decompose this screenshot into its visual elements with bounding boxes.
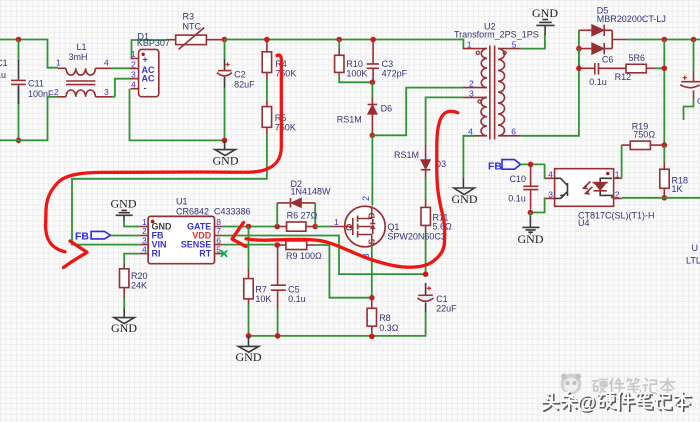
svg-text:1: 1 xyxy=(615,169,620,179)
node R18 bottom junction xyxy=(662,195,668,201)
diode D2 1N4148W xyxy=(277,179,331,208)
watermark faint text 硬件笔记本 xyxy=(592,378,674,394)
inductor L1 common-mode choke xyxy=(54,42,112,97)
svg-text:R20: R20 xyxy=(131,271,148,281)
svg-text:MBR20200CT-LJ: MBR20200CT-LJ xyxy=(597,14,666,24)
svg-text:4: 4 xyxy=(131,80,136,90)
svg-text:GND: GND xyxy=(518,232,544,246)
wire top bus left xyxy=(0,40,58,68)
capacitor C10 0.1u xyxy=(508,164,538,209)
node R8 bottom junction xyxy=(369,334,375,340)
resistor R9 100ohm xyxy=(277,241,322,261)
text cut component left edge xyxy=(0,58,8,80)
node R4 top junction xyxy=(264,37,270,43)
svg-text:0.1u: 0.1u xyxy=(589,77,607,87)
node C3 top junction xyxy=(370,37,376,43)
wire xfmr pin6 to D5 anode column xyxy=(521,30,579,136)
svg-text:4: 4 xyxy=(468,126,473,136)
svg-text:RS1M: RS1M xyxy=(394,150,419,160)
watermark faint logo panda xyxy=(561,374,582,395)
wire R6 to Q1 gate xyxy=(315,226,331,228)
svg-text:4: 4 xyxy=(548,169,553,179)
no-connect X on RT pin xyxy=(221,250,227,256)
svg-text:Q1: Q1 xyxy=(387,222,399,232)
wire Q1 source down xyxy=(371,247,373,298)
svg-text:-: - xyxy=(144,83,147,93)
wire R20 bottom xyxy=(123,297,125,308)
svg-text:2: 2 xyxy=(361,196,371,201)
svg-text:C10: C10 xyxy=(510,174,527,184)
svg-text:GND: GND xyxy=(213,153,239,167)
svg-text:LTL: LTL xyxy=(686,256,700,266)
svg-text:3: 3 xyxy=(104,87,109,97)
node C10 bottom junction xyxy=(528,210,534,216)
svg-text:GND: GND xyxy=(236,350,262,364)
ground GND triangle under R20 xyxy=(111,308,137,335)
svg-text:5: 5 xyxy=(216,244,221,254)
power GND earth under opto xyxy=(518,213,544,247)
node C10 top junction xyxy=(528,162,534,168)
svg-text:GND: GND xyxy=(111,197,137,211)
node GATE D2 left junction xyxy=(274,224,280,230)
node GATE R7 junction xyxy=(246,224,252,230)
svg-text:G: G xyxy=(346,223,353,233)
wire C11 branch bottom xyxy=(18,87,20,141)
svg-text:4: 4 xyxy=(142,244,147,254)
node D6 top junction xyxy=(370,80,376,86)
svg-text:GND: GND xyxy=(111,321,137,335)
svg-text:R9 100Ω: R9 100Ω xyxy=(286,251,322,261)
wire C11 branch top xyxy=(18,40,20,62)
svg-text:R3: R3 xyxy=(183,12,195,22)
text cut component right edge xyxy=(686,243,700,266)
watermark emboss top 头条@硬件笔记本 xyxy=(542,392,690,414)
wire bottom ground row xyxy=(249,312,426,336)
svg-text:C5: C5 xyxy=(288,285,300,295)
resistor R18 1K xyxy=(660,145,688,198)
wire D6 top lead xyxy=(371,82,373,98)
wire xfmr pin5 to earth xyxy=(521,34,545,49)
wire U1 pin4 to R20 xyxy=(124,254,140,265)
svg-text:C1: C1 xyxy=(436,294,448,304)
svg-text:3: 3 xyxy=(548,189,553,199)
wire R12 to bus branch xyxy=(655,40,665,146)
svg-text:R12: R12 xyxy=(615,72,632,82)
wire xfmr pin2 to drain node xyxy=(372,88,462,136)
capacitor C2 82uF xyxy=(217,59,255,90)
svg-text:NTC: NTC xyxy=(183,22,202,32)
svg-text:U1: U1 xyxy=(176,197,188,207)
transformer U2 xyxy=(454,22,539,140)
svg-text:2: 2 xyxy=(615,189,620,199)
svg-text:C6: C6 xyxy=(602,55,614,65)
svg-text:750K: 750K xyxy=(275,123,296,133)
svg-text:750K: 750K xyxy=(275,69,296,79)
svg-text:472pF: 472pF xyxy=(382,69,408,79)
wire R4 to R5 xyxy=(266,79,268,101)
node source sense junction xyxy=(369,295,375,301)
resistor R8 0.3ohm xyxy=(367,298,399,333)
wire D2 left riser xyxy=(276,203,278,227)
svg-text:C2: C2 xyxy=(234,70,246,80)
net label FB left xyxy=(75,230,111,242)
svg-text:2: 2 xyxy=(131,60,136,70)
node D6 bottom junction xyxy=(370,133,376,139)
diode D5 MBR20200CT-LJ dual xyxy=(579,6,666,55)
node junction bottom-left xyxy=(16,138,22,144)
svg-text:R10: R10 xyxy=(346,59,363,69)
svg-text:3: 3 xyxy=(469,89,474,99)
svg-text:1K: 1K xyxy=(672,184,683,194)
svg-text:S: S xyxy=(367,239,377,245)
svg-text:100K: 100K xyxy=(346,69,367,79)
wire FB to U1 pin2 xyxy=(111,235,140,237)
svg-text:10K: 10K xyxy=(255,294,271,304)
svg-text:2: 2 xyxy=(469,79,474,89)
wire R10 bottom to C3 bottom xyxy=(339,75,372,83)
capacitor C5 0.1u xyxy=(271,245,306,336)
svg-text:82uF: 82uF xyxy=(234,80,255,90)
svg-text:C1: C1 xyxy=(0,58,8,68)
capacitor C1 22uF xyxy=(418,283,458,314)
wire D2 right riser xyxy=(314,203,316,227)
wire opto pin2 row xyxy=(622,197,700,199)
resistor R11 5.6ohm xyxy=(421,200,452,234)
power GND earth above U1 pin1 xyxy=(111,197,137,222)
svg-text:GND: GND xyxy=(452,192,478,206)
wire FB to opto pin4 xyxy=(521,164,547,178)
ground GND triangle bottom xyxy=(236,336,262,364)
svg-text:0.3Ω: 0.3Ω xyxy=(379,323,399,333)
svg-text:1: 1 xyxy=(334,217,339,227)
svg-text:D: D xyxy=(367,213,377,219)
wire C2 branch xyxy=(224,40,226,141)
wire R11 bottom xyxy=(425,233,427,274)
node R19 right junction xyxy=(662,142,668,148)
capacitor C6 0.1u xyxy=(579,55,626,88)
node C6 left junction xyxy=(576,66,582,72)
svg-text:U4: U4 xyxy=(578,218,590,228)
svg-text:4: 4 xyxy=(104,58,109,68)
resistor R7 10K xyxy=(244,269,272,305)
wire bottom bus left xyxy=(0,97,58,141)
annotation red stroke right xyxy=(232,111,458,267)
bridge rectifier D1 KBP307 xyxy=(131,32,170,97)
node VDD C1 junction xyxy=(423,271,429,277)
node bottom GND junction xyxy=(246,333,252,339)
diode D6 RS1M xyxy=(337,98,392,135)
annotation red stroke left xyxy=(46,55,282,267)
svg-text:1N4148W: 1N4148W xyxy=(291,187,332,197)
svg-text:D6: D6 xyxy=(381,104,393,114)
svg-text:CR6842_C433386: CR6842_C433386 xyxy=(176,207,251,217)
svg-text:R8: R8 xyxy=(379,313,391,323)
resistor R10 100K xyxy=(335,40,368,79)
svg-text:5: 5 xyxy=(512,40,517,50)
ground GND triangle under D1 xyxy=(213,140,239,167)
node R3 right junction xyxy=(222,37,228,43)
svg-text:2: 2 xyxy=(54,87,59,97)
resistor R5 750K xyxy=(262,101,296,135)
resistor R12 5R6 xyxy=(615,53,655,82)
svg-text:1: 1 xyxy=(131,49,136,59)
svg-text:RT: RT xyxy=(199,249,211,259)
svg-text:0.1u: 0.1u xyxy=(288,294,306,304)
wire R8 bottom xyxy=(371,332,373,337)
wire D3 to R11 xyxy=(425,177,427,200)
svg-text:1: 1 xyxy=(56,58,61,68)
wire R7 top branch xyxy=(248,227,250,270)
resistor R6 27ohm xyxy=(277,211,317,232)
wire top bus right xyxy=(225,40,464,49)
wire R9 to Q1 source node xyxy=(316,245,372,298)
capacitor C11 xyxy=(11,60,54,104)
svg-text:6: 6 xyxy=(511,126,516,136)
svg-text:Transform_2PS_1PS: Transform_2PS_1PS xyxy=(454,30,539,40)
wire xfmr pin3 to D3 xyxy=(426,97,463,146)
svg-text:C3: C3 xyxy=(382,59,394,69)
node R6 right junction xyxy=(312,224,318,230)
node D5 anodes junction xyxy=(576,46,582,52)
wire xfmr pin4 to ground xyxy=(463,136,475,179)
svg-text:L1: L1 xyxy=(77,42,87,52)
wire output bus xyxy=(627,39,700,41)
resistor R3 NTC xyxy=(167,12,224,50)
svg-text:+: + xyxy=(143,55,148,65)
svg-text:R7: R7 xyxy=(255,285,267,295)
capacitor C-output right edge xyxy=(680,40,700,121)
svg-text:5R6: 5R6 xyxy=(629,53,646,63)
svg-text:SPW20N60C3: SPW20N60C3 xyxy=(387,232,446,242)
svg-text:0.1u: 0.1u xyxy=(508,194,526,204)
wire L1.4 to D1.2 xyxy=(112,67,131,69)
optocoupler U4 CT817C xyxy=(546,169,655,228)
wire GND to U1 pin1 xyxy=(124,221,140,227)
wire R5 bottom long route to VIN xyxy=(72,134,267,245)
svg-text:1u: 1u xyxy=(0,70,6,80)
net label FB right xyxy=(488,160,521,173)
IC U1 CR6842 xyxy=(140,197,251,264)
node C2 bottom junction xyxy=(222,138,228,144)
svg-text:750Ω: 750Ω xyxy=(633,130,655,140)
node output bus junction 1 xyxy=(662,37,668,43)
wire D1.4 down to ground row xyxy=(130,89,225,141)
watermark emboss shadow 头条@硬件笔记本 xyxy=(544,394,692,416)
node R10 top junction xyxy=(336,37,342,43)
node C5 bottom junction xyxy=(275,333,281,339)
wire VDD row xyxy=(223,236,426,275)
resistor R4 750K xyxy=(262,41,296,79)
svg-text:3: 3 xyxy=(131,70,136,80)
svg-text:GND: GND xyxy=(532,6,558,20)
svg-text:FB: FB xyxy=(75,230,89,242)
ground GND triangle under xfmr aux xyxy=(452,178,478,206)
svg-text:22uF: 22uF xyxy=(436,304,457,314)
svg-text:24K: 24K xyxy=(131,281,147,291)
wire GATE row xyxy=(223,226,278,228)
svg-text:RS1M: RS1M xyxy=(337,115,362,125)
wire R7 bottom xyxy=(248,304,250,336)
wire opto pin3 to C10 bottom xyxy=(530,198,546,212)
wire drain riser xyxy=(371,135,373,205)
svg-text:C11: C11 xyxy=(28,79,44,89)
svg-text:5.6Ω: 5.6Ω xyxy=(433,222,453,232)
node junction top-left xyxy=(16,37,22,43)
svg-text:1: 1 xyxy=(467,40,472,50)
transistor Q1 SPW20N60C3 xyxy=(332,196,446,259)
capacitor C3 472pF xyxy=(367,41,408,82)
wire L1.3 to D1.3 xyxy=(112,79,131,97)
resistor R20 24K xyxy=(120,265,148,298)
node output bus junction 2 xyxy=(691,37,697,43)
svg-text:R6 27Ω: R6 27Ω xyxy=(287,211,318,221)
svg-text:FB: FB xyxy=(488,161,502,173)
svg-text:3mH: 3mH xyxy=(69,52,88,62)
svg-text:@: @ xyxy=(577,393,596,414)
diode D3 RS1M xyxy=(394,146,446,178)
wire SENSE row xyxy=(223,244,277,246)
svg-text:KBP307: KBP307 xyxy=(137,38,170,48)
svg-text:RI: RI xyxy=(152,249,161,259)
svg-text:U: U xyxy=(692,243,699,253)
wire D5 anode column to C6 row xyxy=(578,49,580,69)
node snubber junction xyxy=(662,66,668,72)
wire D1.1 riser to R3 xyxy=(132,40,168,59)
resistor R19 750ohm xyxy=(622,122,665,179)
node SENSE junction xyxy=(274,242,280,248)
power GND earth top xyxy=(532,6,558,35)
